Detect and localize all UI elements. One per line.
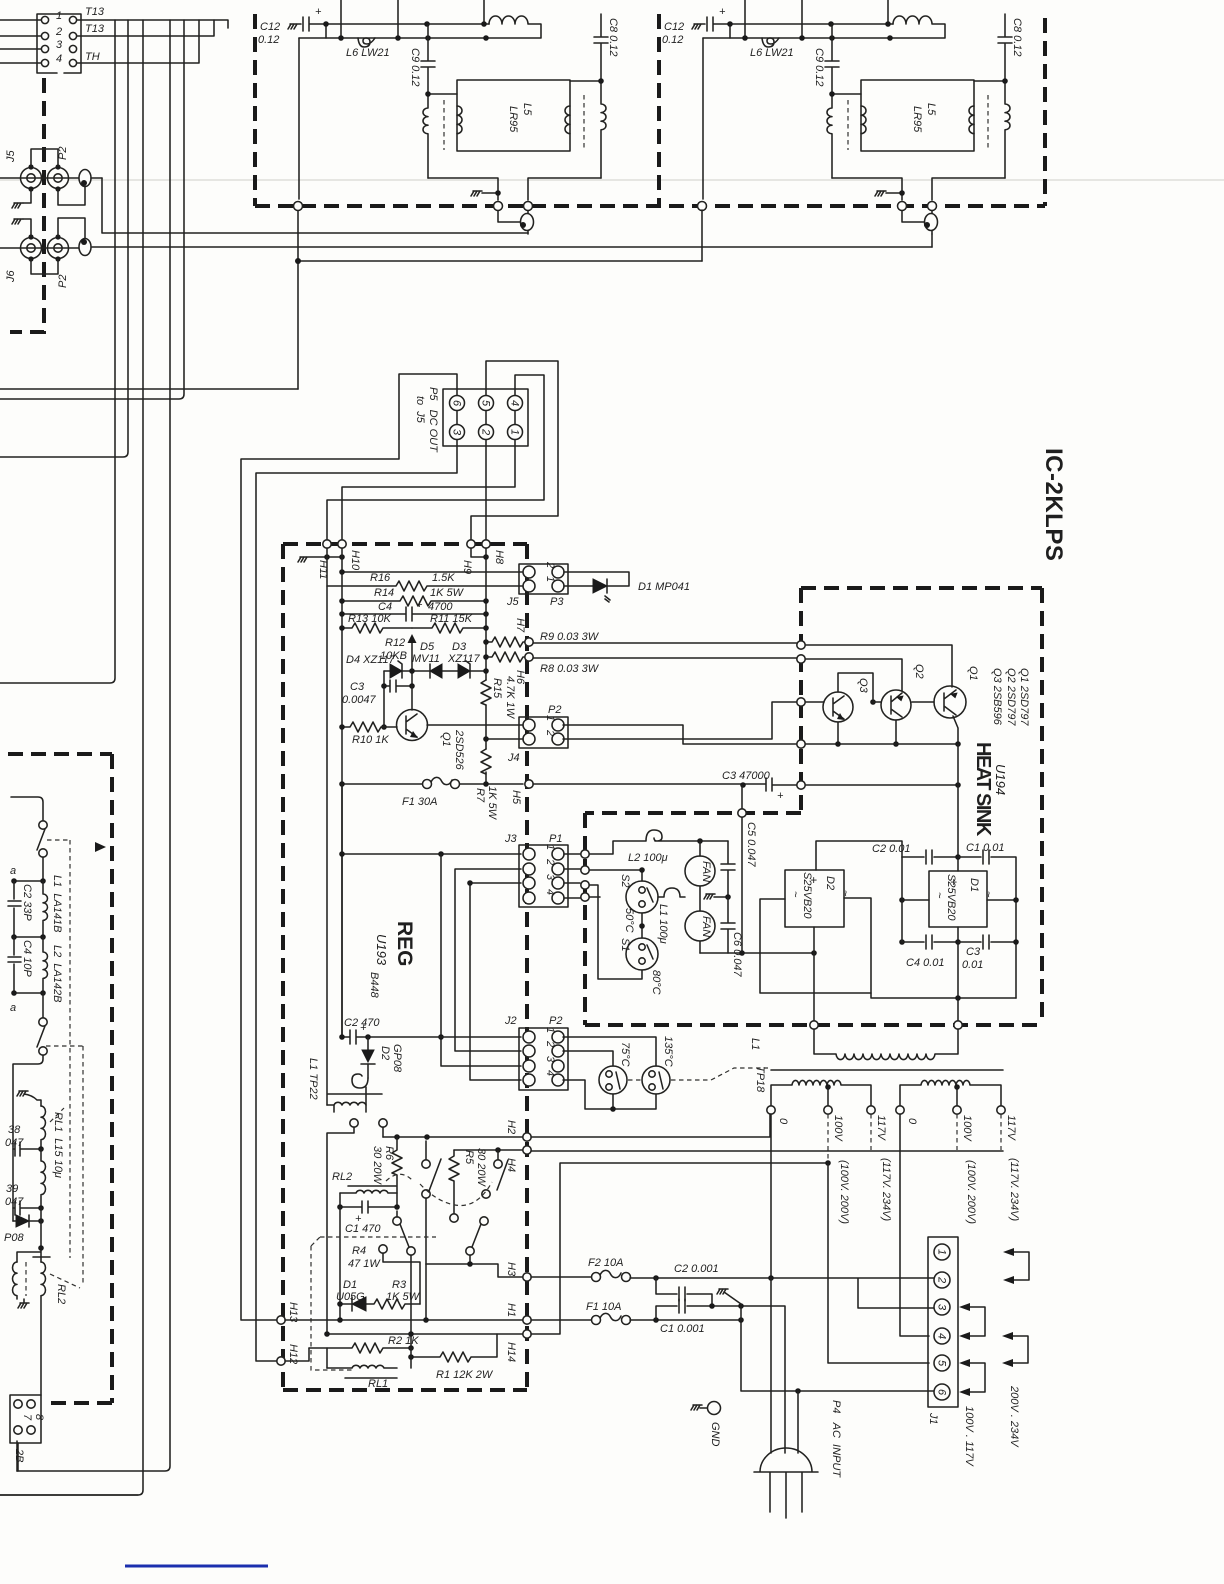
heat sink pins [797, 641, 805, 649]
wire H2 row right [531, 1114, 770, 1137]
output rail [957, 744, 959, 1021]
relay RL2 winding right [33, 1257, 50, 1296]
wire pin1 to H10 [342, 440, 515, 539]
wire left column [12, 1146, 14, 1221]
resistor R16 [327, 581, 523, 591]
svg-text:D3: D3 [452, 641, 467, 653]
svg-text:IC-2KLPS: IC-2KLPS [1040, 448, 1067, 561]
svg-text:R8 0.03 3W: R8 0.03 3W [540, 663, 600, 675]
svg-text:3: 3 [544, 1056, 556, 1063]
bead inductor [352, 1074, 368, 1088]
thermostat S1 [641, 913, 643, 938]
svg-text:047: 047 [5, 1196, 24, 1208]
relay linkage dashes [311, 1174, 492, 1370]
svg-text:T13: T13 [85, 6, 105, 18]
wire exit y389 [0, 388, 298, 390]
capacitor C4 10P [8, 937, 21, 993]
svg-text:0.01: 0.01 [962, 959, 983, 971]
ground mid [704, 894, 728, 899]
diode D2 GP08 [367, 1037, 369, 1078]
switch S-a [39, 821, 47, 829]
svg-text:J1: J1 [927, 1412, 939, 1425]
capacitor C38 [13, 1142, 41, 1156]
svg-text:R10 1K: R10 1K [352, 734, 389, 746]
transistor Q1 [934, 686, 966, 718]
wire pin6 to H13 [241, 374, 457, 1320]
resistor R10 [342, 722, 397, 732]
wire pin3 to H12 [256, 440, 457, 1361]
connector P5 box [443, 389, 528, 446]
trimmer R12 [411, 642, 413, 686]
svg-text:Q1: Q1 [440, 732, 452, 747]
inductor RL1 L15 winding 2 [41, 1149, 46, 1208]
svg-text:2: 2 [544, 1040, 556, 1047]
zener D4 [390, 664, 402, 678]
wire bus vertical 2 [0, 20, 128, 457]
harness wire x470 [470, 883, 521, 1080]
capacitor C1 0.001 [656, 1299, 785, 1453]
harness wire x441 [441, 854, 521, 1066]
relay RL2 winding left [13, 1262, 17, 1299]
svg-text:U05G: U05G [336, 1291, 365, 1303]
svg-text:3: 3 [936, 1304, 948, 1311]
svg-text:HEAT SINK: HEAT SINK [972, 742, 994, 837]
svg-text:R9 0.03 3W: R9 0.03 3W [540, 631, 600, 643]
connector TB1 outline [37, 14, 81, 73]
connector J5/P3 box [519, 564, 568, 594]
svg-text:135°C: 135°C [662, 1036, 674, 1067]
svg-text:~: ~ [933, 892, 945, 899]
capacitor C39 [13, 1201, 41, 1215]
svg-text:C1 0.01: C1 0.01 [966, 842, 1005, 854]
svg-text:D1: D1 [343, 1279, 357, 1291]
L1 TP22 secondary [350, 1119, 358, 1127]
svg-text:U194: U194 [993, 764, 1008, 795]
pin H10 [338, 540, 346, 548]
svg-text:4700: 4700 [428, 601, 453, 613]
zener D3 [458, 664, 470, 678]
ground top of RL1 [17, 1091, 41, 1106]
svg-text:(100V. 200V): (100V. 200V) [965, 1160, 977, 1224]
wire 100V column to J1-5 [828, 1163, 929, 1363]
HEAT SINK dashed box [585, 588, 1042, 1025]
wire J4-2 row [486, 738, 523, 740]
svg-text:S25VB20: S25VB20 [945, 874, 957, 921]
resistor R2 [309, 1343, 411, 1353]
jumper arrows 3-4 [970, 1307, 985, 1336]
svg-text:Q2 2SD797: Q2 2SD797 [1005, 668, 1017, 726]
svg-text:1K 5W: 1K 5W [430, 587, 465, 599]
transformer primary winding [814, 1029, 958, 1060]
harness wire x455 [455, 869, 521, 1051]
capacitor C4 [342, 607, 486, 621]
svg-text:100V . 117V: 100V . 117V [963, 1406, 975, 1467]
svg-text:1K 5W: 1K 5W [386, 1291, 421, 1303]
wire F2 row to J1 pins 2,3 [630, 1278, 934, 1308]
svg-text:3: 3 [56, 39, 63, 51]
ground at J5 [12, 203, 23, 208]
linkage dashes [46, 840, 83, 1288]
svg-text:~: ~ [789, 891, 801, 898]
svg-text:75°C: 75°C [619, 1042, 631, 1067]
resistor R6 [392, 1137, 402, 1207]
svg-text:J5: J5 [506, 596, 520, 608]
switch sw5 [480, 1217, 488, 1225]
connector J2/P2 box [519, 1028, 568, 1090]
connector P2 (upper) [48, 168, 69, 189]
wire H12 to R2 [285, 1348, 309, 1361]
connector J6 [21, 238, 42, 259]
svg-text:L2 LA142B: L2 LA142B [51, 945, 63, 1003]
svg-text:L1: L1 [749, 1038, 761, 1050]
svg-text:H1: H1 [505, 1303, 517, 1317]
svg-text:L1 LA141B: L1 LA141B [51, 875, 63, 933]
svg-text:MV11: MV11 [412, 653, 440, 665]
arrow mark [95, 842, 106, 852]
svg-text:J6: J6 [5, 270, 17, 284]
wire feedthrough to bus [91, 177, 102, 179]
svg-text:RL2: RL2 [55, 1284, 67, 1304]
svg-text:Q2: Q2 [913, 664, 925, 679]
pin H8 [482, 540, 490, 548]
svg-text:C4 10P: C4 10P [21, 940, 33, 977]
resistor R11 [412, 623, 486, 633]
svg-text:047: 047 [5, 1137, 24, 1149]
svg-text:U193: U193 [374, 934, 389, 966]
resistor R15 [481, 680, 491, 705]
filter unit left [255, 0, 619, 234]
thermostat S2 [589, 870, 642, 881]
svg-text:P08: P08 [4, 1232, 24, 1244]
fuse F2 10A [531, 1270, 621, 1277]
svg-text:L2 100μ: L2 100μ [628, 852, 668, 864]
jumper arrows 4-5 [1013, 1336, 1028, 1363]
wire thermostat bottoms [563, 1080, 656, 1109]
dashed box bottom edge [255, 204, 1045, 208]
jumper arrows 5-6 [970, 1363, 985, 1392]
connector TB1 pins [41, 16, 48, 23]
wire P2-1 row to collectors rail [563, 725, 797, 744]
wire 100V link row [531, 1163, 828, 1334]
transistor Q1 (2SD526) [397, 710, 428, 741]
wire H14 row [327, 1333, 523, 1335]
ground at J6 [12, 219, 23, 224]
wire right feedthrough to bus [931, 234, 933, 247]
transistor Q3 [823, 692, 853, 722]
capacitor C3 [384, 671, 412, 727]
svg-text:117V: 117V [875, 1115, 887, 1142]
resistor R14 [342, 596, 486, 606]
svg-text:0.0047: 0.0047 [342, 694, 377, 706]
REG dashed box [283, 544, 527, 1390]
svg-text:P5 DC OUT: P5 DC OUT [427, 387, 439, 453]
relay RL2 coil [348, 1185, 396, 1187]
inductor L1 LA141B [43, 881, 48, 937]
svg-text:R5: R5 [463, 1150, 475, 1165]
svg-text:H3: H3 [505, 1262, 517, 1277]
svg-text:5: 5 [936, 1360, 948, 1367]
wire row a2 [14, 936, 43, 938]
wire bus vertical 3 [0, 20, 143, 1495]
connector P2 (lower) [48, 238, 69, 259]
svg-text:a: a [10, 1002, 16, 1014]
wire RL1 vertical [327, 1348, 411, 1368]
diode D5 [430, 664, 442, 678]
wire J5-2 row [342, 571, 523, 573]
resistor R7 [481, 749, 491, 774]
bridge D1 S25VB20 [929, 871, 987, 927]
svg-text:D1 MP041: D1 MP041 [638, 581, 690, 593]
wire long bus y247 [92, 246, 932, 248]
svg-text:C4 0.01: C4 0.01 [906, 957, 945, 969]
capacitor C6 [721, 897, 735, 953]
dashed filter box [8, 754, 112, 1403]
svg-text:1K 5W: 1K 5W [486, 786, 498, 821]
wire 0B column to J1-4 [900, 1114, 929, 1336]
svg-text:J3: J3 [504, 833, 518, 845]
switch S-b [42, 993, 44, 1018]
svg-text:R12: R12 [385, 637, 405, 649]
svg-text:F1 10A: F1 10A [586, 1301, 621, 1313]
wire bottom-left exit1 [16, 1441, 18, 1471]
svg-text:1: 1 [509, 429, 521, 435]
svg-text:S2: S2 [619, 874, 631, 887]
wire R8 row to Q2 [533, 658, 902, 691]
svg-text:C2 0.001: C2 0.001 [674, 1263, 719, 1275]
svg-text:1: 1 [936, 1249, 948, 1255]
wire pins left to edge [0, 20, 41, 63]
ground at H11 [298, 557, 342, 562]
wire J6 bracket [0, 218, 85, 274]
svg-text:R2 1K: R2 1K [388, 1335, 419, 1347]
feedthrough lower [79, 239, 91, 256]
svg-text:~: ~ [839, 890, 851, 897]
connector J5 [21, 168, 42, 189]
svg-text:P2: P2 [548, 704, 561, 716]
wire long bus y233 [102, 178, 528, 233]
svg-text:47 1W: 47 1W [348, 1258, 381, 1270]
svg-text:RL1 L15 10μ: RL1 L15 10μ [52, 1112, 64, 1178]
svg-text:2: 2 [544, 858, 556, 865]
svg-text:D5: D5 [420, 641, 435, 653]
svg-text:2: 2 [480, 428, 492, 435]
svg-text:4: 4 [936, 1333, 948, 1339]
transformer core line [771, 1069, 1003, 1071]
inductor L2 LA142B [43, 937, 48, 993]
wire to H13 row [425, 1264, 427, 1320]
capacitor C2 0.01 [902, 850, 958, 864]
svg-text:6: 6 [936, 1389, 948, 1396]
fuse F1 10A [531, 1313, 621, 1320]
svg-text:Q1 2SD797: Q1 2SD797 [1018, 668, 1030, 726]
wire H4 row [454, 1149, 523, 1151]
wire H3 row [426, 1264, 523, 1277]
svg-text:FAN: FAN [700, 861, 712, 882]
svg-text:T13: T13 [85, 23, 105, 35]
wire bus vertical 4 [17, 20, 170, 1471]
svg-text:7: 7 [21, 1414, 33, 1421]
wire fan bottom row [700, 952, 814, 954]
terminal GND [708, 1402, 721, 1415]
pin H9 [467, 540, 475, 548]
resistor R5 [449, 1150, 459, 1214]
svg-text:30 20W: 30 20W [371, 1146, 383, 1186]
inductor L1 100u [658, 888, 685, 897]
pin H13 [277, 1316, 285, 1324]
svg-text:P2: P2 [57, 147, 69, 160]
svg-text:GP08: GP08 [391, 1044, 403, 1073]
svg-text:B448: B448 [368, 972, 380, 999]
wire bottom-left exit2 [0, 1494, 138, 1496]
pin H12 [277, 1357, 285, 1365]
switch sw4 [393, 1217, 401, 1225]
svg-text:D1: D1 [968, 878, 980, 892]
svg-text:F2 10A: F2 10A [588, 1257, 623, 1269]
thermostat 75C [599, 1066, 627, 1094]
wire bus vertical 5 [0, 20, 184, 399]
margin line [125, 1565, 268, 1568]
svg-text:P1: P1 [549, 833, 562, 845]
svg-text:L1 TP22: L1 TP22 [307, 1058, 319, 1100]
svg-text:4: 4 [544, 889, 556, 895]
svg-text:F1 30A: F1 30A [402, 796, 437, 808]
rail H10 [341, 548, 343, 1037]
svg-text:J4: J4 [507, 752, 520, 764]
wire pin1 right [77, 20, 228, 28]
svg-text:R16: R16 [370, 572, 391, 584]
svg-text:R1 12K 2W: R1 12K 2W [436, 1369, 494, 1381]
wire F1 row to J1 pin 6 [630, 1320, 934, 1391]
transistor Q2 [881, 690, 911, 720]
dashed box J5 J6 area [10, 78, 44, 332]
svg-text:C3: C3 [966, 946, 981, 958]
connector J1 [928, 1237, 958, 1407]
capacitor C3 47000 [533, 778, 958, 791]
svg-text:1: 1 [544, 576, 556, 582]
svg-text:39: 39 [6, 1183, 18, 1195]
svg-text:4: 4 [544, 1070, 556, 1076]
linkage dashes to L1 TP18 [628, 1068, 768, 1080]
pin H11 [323, 540, 331, 548]
svg-text:(117V. 234V): (117V. 234V) [880, 1158, 892, 1222]
wire bus vertical 1 [0, 20, 115, 683]
capacitor C1 0.01 [958, 850, 1016, 998]
svg-text:P4 AC INPUT: P4 AC INPUT [830, 1400, 842, 1478]
svg-text:H2: H2 [505, 1120, 517, 1134]
svg-text:Q3 2SB596: Q3 2SB596 [991, 668, 1003, 726]
wire ground column [740, 1306, 742, 1320]
fan circuit: L2 coil [589, 830, 728, 854]
svg-text:+: + [777, 790, 784, 802]
resistor R9 [486, 637, 525, 647]
capacitor C3 0.01 [958, 935, 1016, 949]
svg-text:D2: D2 [824, 876, 836, 890]
wire H4 row right [531, 1150, 1003, 1152]
svg-text:2: 2 [936, 1276, 948, 1283]
svg-text:H5: H5 [510, 790, 522, 805]
jumper arrows 1-2 [1014, 1252, 1029, 1280]
svg-text:D4 XZ117: D4 XZ117 [346, 654, 396, 666]
wire connector down [17, 1443, 19, 1471]
svg-text:8: 8 [33, 1414, 45, 1421]
P5 pin 4 [508, 396, 523, 411]
switch sw3 [497, 1150, 499, 1160]
svg-text:H14: H14 [505, 1342, 517, 1362]
wire pin5 to H9 [471, 361, 558, 539]
svg-text:100V: 100V [832, 1115, 844, 1142]
rail x342 lower [341, 784, 343, 1037]
svg-text:1: 1 [56, 10, 62, 22]
svg-text:200V . 234V: 200V . 234V [1008, 1385, 1020, 1448]
svg-text:H8: H8 [493, 550, 505, 565]
contact R4 [379, 1245, 387, 1253]
svg-text:C2 0.01: C2 0.01 [872, 843, 911, 855]
ground at C-caps [717, 1289, 741, 1304]
svg-text:50°C: 50°C [623, 908, 635, 933]
svg-text:H10: H10 [349, 550, 361, 571]
svg-text:(100V. 200V): (100V. 200V) [838, 1160, 850, 1224]
svg-text:C1 0.001: C1 0.001 [660, 1323, 705, 1335]
P5 pin 5 [479, 396, 494, 411]
resistor R13 [342, 623, 412, 633]
svg-text:D2: D2 [379, 1046, 391, 1060]
rail H11 [326, 548, 328, 1105]
wire input [11, 797, 43, 820]
resistor R1 [411, 1334, 497, 1362]
relay RL1 coil [327, 1365, 397, 1368]
P5 pin 3 [450, 425, 465, 440]
bridge D2 S25VB20 [785, 870, 844, 927]
svg-text:80°C: 80°C [650, 970, 662, 995]
svg-text:(117V. 234V): (117V. 234V) [1008, 1158, 1020, 1222]
capacitor C1 470 [340, 1193, 397, 1213]
svg-text:2: 2 [544, 561, 556, 568]
rail x340 lower [339, 1207, 341, 1320]
svg-text:~: ~ [982, 891, 994, 898]
svg-text:RL1: RL1 [368, 1378, 388, 1390]
fuse F1 30A [342, 777, 523, 784]
capacitor C2 470 [342, 1030, 521, 1044]
P5 pin 6 [450, 396, 465, 411]
svg-text:+: + [416, 599, 423, 611]
svg-text:TH: TH [85, 51, 100, 63]
svg-text:R4: R4 [352, 1245, 366, 1257]
svg-text:1: 1 [544, 1027, 556, 1033]
secondary winding A [771, 1080, 871, 1106]
svg-text:4: 4 [56, 53, 62, 65]
wire C12 column to bus [701, 210, 703, 261]
svg-text:38: 38 [8, 1124, 21, 1136]
wire collector rail [805, 743, 958, 745]
wire H9 join [471, 548, 486, 557]
svg-text:S25VB20: S25VB20 [801, 872, 813, 919]
svg-text:C2 470: C2 470 [344, 1017, 380, 1029]
svg-text:C3: C3 [350, 681, 365, 693]
svg-text:3: 3 [544, 874, 556, 881]
svg-text:5: 5 [480, 400, 492, 407]
inductor RL1 L15 winding 1 [41, 1106, 46, 1149]
svg-text:2B: 2B [13, 1448, 25, 1462]
secondary winding B [900, 1080, 1001, 1106]
svg-text:XZ117: XZ117 [447, 653, 480, 665]
svg-text:R6: R6 [383, 1146, 395, 1161]
fan 1 [685, 856, 715, 886]
svg-text:R13 10K: R13 10K [348, 613, 391, 625]
svg-text:L1 100μ: L1 100μ [657, 904, 669, 944]
svg-text:to J5: to J5 [414, 396, 426, 424]
fan 2 [685, 911, 715, 941]
ground RL2 [18, 1299, 29, 1308]
